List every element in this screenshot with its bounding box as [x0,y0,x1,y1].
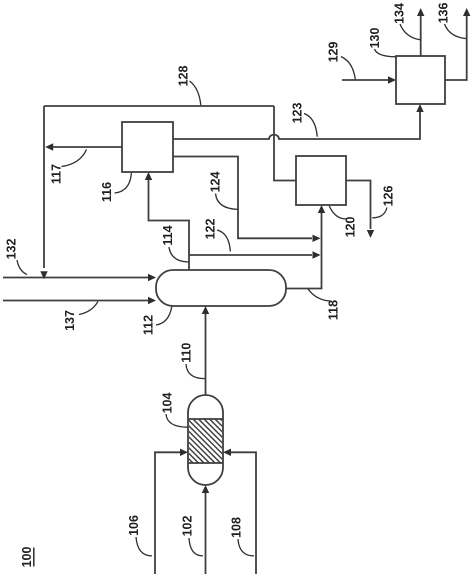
svg-text:118: 118 [326,300,340,320]
svg-text:112: 112 [141,315,155,335]
arrowhead 123 into unit 130 bottom [416,104,423,112]
arrowhead 114 into unit 116 bottom [145,172,152,180]
leader 112 [156,307,172,326]
wire stream 122 branch [189,254,312,256]
wire stream 123 with hop over recycle line [173,112,420,139]
leader 136 [445,24,467,39]
svg-text:124: 124 [208,172,222,193]
arrowhead 106 into reactor left [180,449,188,456]
leader 130 [375,49,396,57]
leader 106 [136,537,152,556]
svg-text:130: 130 [368,28,382,49]
svg-text:120: 120 [343,217,357,238]
label 110 [179,343,193,363]
unit U116 [122,122,173,172]
arrowhead 134 up [417,8,424,16]
arrowhead 126 pointing down [367,230,374,238]
label 123 [290,103,304,124]
svg-text:122: 122 [203,219,217,240]
wire stream 110 [205,314,207,395]
leader 132 [17,260,27,275]
leader 104 [166,414,188,427]
leader 102 [189,538,203,556]
wire stream 124 [173,157,312,239]
wire stream 106 [155,452,180,574]
wire stream 102 [205,493,207,574]
leader 110 [186,364,205,379]
label 118 [326,300,340,320]
wire 128 elbow into unit 120 [274,106,296,181]
svg-text:110: 110 [179,343,193,363]
leader 118 [308,289,330,301]
wire stream 128 top line [44,105,274,107]
svg-text:117: 117 [49,164,63,184]
label 100 underlined [20,547,34,568]
arrowhead 124 joins 118 riser [313,235,321,242]
leader 117 [62,150,87,167]
label 116 [100,182,114,202]
wire stream 134 [420,16,422,56]
wire stream 114 from vessel top to unit 116 [149,180,190,270]
svg-text:114: 114 [161,225,175,245]
leader 126 [372,208,387,218]
vessel V112 separator drum [156,270,286,306]
leader 122 [217,230,230,251]
label 122 [203,219,217,240]
label 104 [160,393,174,414]
svg-text:102: 102 [180,516,194,537]
unit U120 [296,156,346,205]
arrowhead 129 into unit 130 left [388,76,396,83]
wire recycle 128 down leg [43,106,45,268]
leader 108 [238,539,254,556]
wire stream 129 [342,79,388,81]
leader 129 [341,57,355,80]
label 108 [229,517,243,538]
label 114 [161,225,175,245]
svg-text:126: 126 [381,186,395,207]
leader 134 [400,24,420,40]
label 120 [343,217,357,238]
reactor R104 catalyst bed hatch [134,415,277,470]
svg-text:136: 136 [436,3,450,24]
label 130 [368,28,382,49]
label 112 [141,315,155,335]
arrowhead into vessel 112 left (137 feed) [148,297,156,304]
svg-text:100: 100 [20,547,34,568]
reactor R104 vessel body [188,395,223,485]
arrowhead 110 into vessel bottom [202,306,209,314]
label 137 [63,310,77,331]
label 134 [392,3,406,24]
svg-text:132: 132 [4,239,18,260]
svg-text:129: 129 [326,42,340,63]
wire stream 118 riser from vessel to unit 120 [286,213,322,289]
arrowhead 102 into reactor bottom [202,485,209,493]
label 126 [381,186,395,207]
wire stream 132 feed line [3,277,150,279]
wire stream 136 [445,16,467,80]
leader 114 [169,247,189,262]
leader 128 [190,81,201,105]
leader 116 [115,173,132,193]
leader 124 [216,194,238,210]
leader 120 [329,206,346,219]
label 132 [4,239,18,260]
leader 137 [79,302,98,315]
label 129 [326,42,340,63]
label 102 [180,516,194,537]
unit U130 [396,56,445,104]
arrowhead 118 into unit 120 bottom [318,205,325,213]
arrowhead 122 joins 118 riser [313,251,321,258]
label 136 [436,3,450,24]
arrowhead 136 up [463,8,470,16]
label 106 [127,515,141,536]
leader 123 [304,114,317,137]
arrowhead recycle joins feed line [40,271,47,279]
label 117 [49,164,63,184]
wire stream 117 [52,146,122,148]
label 124 [208,172,222,193]
arrowhead into vessel 112 left (132 feed) [148,274,156,281]
svg-text:104: 104 [160,393,174,414]
svg-text:137: 137 [63,310,77,331]
svg-text:106: 106 [127,515,141,536]
svg-text:108: 108 [229,517,243,538]
svg-text:128: 128 [176,66,190,87]
svg-text:116: 116 [100,182,114,202]
label 128 [176,66,190,87]
arrowhead 108 into reactor right [223,449,231,456]
arrowhead 117 pointing left [45,143,53,150]
wire stream 108 [231,452,256,574]
svg-text:123: 123 [290,103,304,124]
wire stream 126 [346,181,371,230]
wire stream 137 feed line [3,300,150,302]
svg-text:134: 134 [392,3,406,24]
